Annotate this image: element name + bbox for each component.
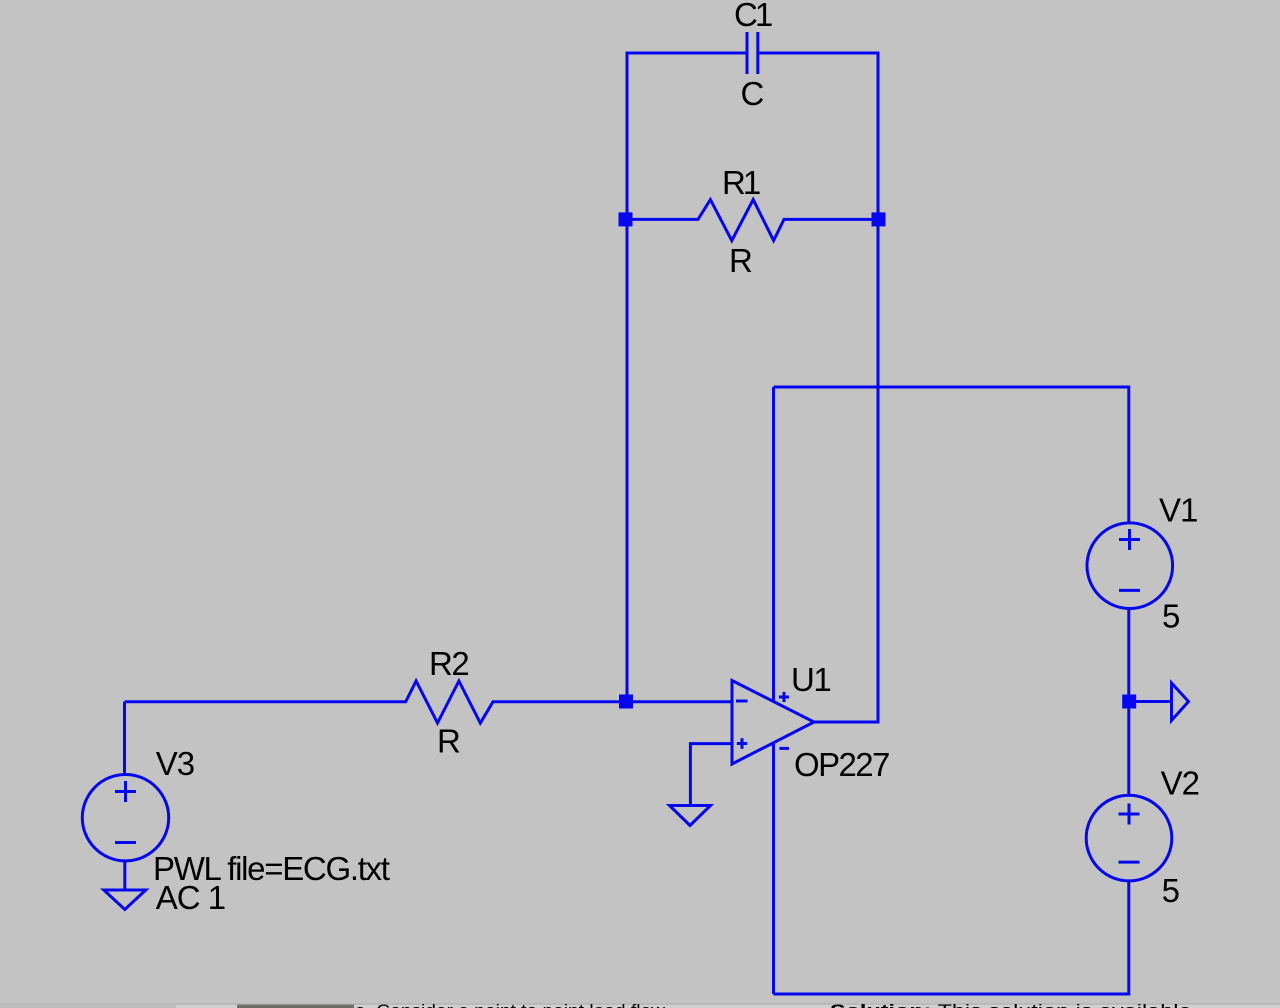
op-amp noninverting marker — [737, 738, 747, 749]
svg-text:a. Consider a point to point l: a. Consider a point to point load flow — [355, 1001, 666, 1008]
voltage source V1 — [1087, 523, 1173, 609]
wire op-amp V+ pin — [772, 387, 775, 701]
svg-text:V2: V2 — [1161, 765, 1199, 802]
voltage source V3 — [82, 775, 168, 861]
op-amp inverting marker — [736, 700, 748, 703]
wire op-amp V- pin — [772, 744, 775, 995]
document dark bar — [237, 1005, 354, 1008]
node junction R1 left — [619, 212, 633, 226]
wire top rail left — [627, 53, 746, 219]
svg-text:AC 1: AC 1 — [156, 879, 225, 916]
wire output port — [1129, 700, 1172, 703]
svg-text:5: 5 — [1162, 872, 1179, 909]
svg-text:R2: R2 — [429, 645, 468, 682]
svg-text:R: R — [437, 723, 460, 760]
ground V3 — [104, 890, 146, 910]
wire V3 to R2 — [123, 702, 126, 775]
wire V1 to junction — [1127, 608, 1130, 701]
wire top rail right — [759, 53, 878, 219]
svg-text:V3: V3 — [156, 745, 194, 782]
wire V3 to ground — [123, 861, 126, 890]
voltage source V2 — [1086, 795, 1172, 881]
svg-text:Solution: This solution is ava: Solution: This solution is available. — [830, 1001, 1198, 1008]
node junction R1 right — [872, 212, 886, 226]
document strip below schematic — [0, 1003, 1280, 1005]
svg-text:C1: C1 — [734, 0, 772, 33]
wire bottom supply rail — [774, 881, 1129, 994]
ground opamp — [670, 806, 711, 826]
node junction supply mid — [1122, 695, 1136, 709]
svg-text:5: 5 — [1162, 598, 1179, 635]
resistor R1 — [627, 200, 878, 241]
svg-text:V1: V1 — [1159, 492, 1197, 529]
capacitor C1 — [747, 32, 758, 74]
output port arrow — [1172, 683, 1189, 721]
wire junction to V2 — [1127, 702, 1130, 796]
svg-text:OP227: OP227 — [794, 746, 889, 783]
resistor R2 — [125, 681, 733, 723]
wire noninverting to ground — [690, 744, 732, 806]
wire left branch — [626, 219, 629, 702]
svg-text:R: R — [729, 242, 752, 279]
wire top supply rail — [774, 387, 1129, 524]
svg-text:R1: R1 — [722, 164, 760, 201]
op-amp V+ marker — [779, 692, 789, 702]
op-amp V- marker — [779, 747, 789, 750]
node junction input — [619, 695, 633, 709]
op-amp U1 — [732, 681, 814, 765]
op-amp output wire — [814, 721, 878, 724]
wire feedback branch — [814, 219, 878, 722]
svg-text:U1: U1 — [791, 661, 830, 698]
svg-text:C: C — [741, 75, 764, 112]
